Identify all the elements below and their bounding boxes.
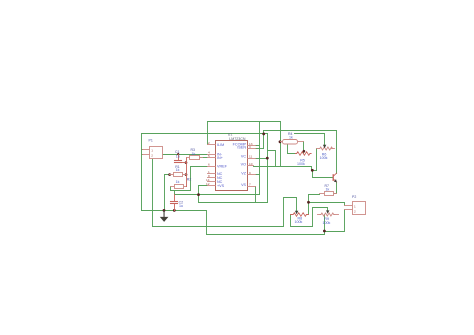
node R7 junction: [307, 201, 310, 204]
pin 14 NC: [208, 181, 216, 183]
connector P1: [143, 150, 150, 155]
pin 10 VO: [248, 165, 254, 167]
wire collector rail: [264, 130, 337, 132]
wire C1 node vertical: [186, 158, 188, 175]
node R1 right junction: [185, 173, 188, 176]
svg-text:100k: 100k: [320, 156, 328, 160]
wire P1 outer vertical: [141, 134, 143, 211]
resistor R1: [170, 174, 187, 176]
wire R7 to P2 pin1: [309, 203, 345, 206]
wire VC stub ext: [256, 158, 268, 160]
svg-text:1: 1: [354, 204, 356, 208]
resistor R7: [320, 193, 337, 195]
capacitor C2: [171, 195, 178, 211]
wire VZ stub ext: [256, 174, 260, 176]
wire P1 pin1 jog: [142, 149, 143, 151]
svg-text:1: 1: [151, 148, 153, 152]
resistor R5: [296, 152, 312, 156]
svg-text:C1: C1: [175, 150, 180, 154]
svg-text:6: 6: [208, 162, 210, 166]
node +VS junction: [197, 193, 200, 196]
pin 2 ILIM: [208, 144, 216, 146]
svg-text:1u: 1u: [179, 204, 183, 208]
potentiometer R8: [291, 213, 309, 217]
node base junction: [311, 169, 314, 172]
wire ISEN vertical: [263, 131, 265, 149]
svg-text:3: 3: [249, 145, 251, 149]
svg-text:2: 2: [151, 153, 153, 157]
svg-text:10: 10: [249, 162, 253, 166]
pin 6 VREF: [208, 166, 216, 168]
wire ILIM vertical: [207, 122, 209, 145]
wire feedback run: [153, 198, 297, 227]
pin 13 FCOMP: [248, 145, 256, 147]
wire FCOMP vertical: [259, 122, 261, 195]
wire R4 bottom to R5: [288, 144, 296, 154]
svg-text:LM723CN: LM723CN: [229, 137, 246, 141]
svg-text:2: 2: [354, 209, 356, 213]
svg-text:1k: 1k: [176, 180, 180, 184]
wire +VS link: [199, 186, 208, 195]
svg-text:1k: 1k: [192, 152, 196, 156]
svg-text:1k: 1k: [326, 187, 330, 191]
wire R9 left vertical: [324, 215, 326, 232]
svg-text:VS: VS: [241, 183, 246, 187]
svg-text:VREF: VREF: [217, 164, 228, 168]
svg-text:1k: 1k: [176, 168, 180, 172]
svg-text:VZ: VZ: [241, 172, 246, 176]
svg-text:7: 7: [249, 183, 251, 187]
svg-text:VC: VC: [241, 155, 246, 159]
pin 7 VS: [248, 186, 256, 188]
pin 3 ISEN: [248, 148, 256, 150]
wire VC vertical: [267, 134, 269, 203]
svg-text:5: 5: [208, 154, 210, 158]
node R4 pin junction: [279, 140, 282, 143]
wire bottom to P2 pin2: [325, 210, 345, 232]
svg-text:2: 2: [208, 141, 210, 145]
svg-text:11: 11: [249, 154, 252, 158]
svg-text:9: 9: [249, 171, 251, 175]
wire VC jog: [268, 151, 276, 167]
potentiometer R6: [319, 147, 333, 150]
svg-text:ILIM: ILIM: [217, 143, 224, 147]
svg-text:1k: 1k: [289, 136, 293, 140]
svg-text:100k: 100k: [297, 162, 305, 166]
node C1-R3 junction: [185, 161, 188, 164]
wire R6 left down: [316, 149, 318, 171]
wire W3 to R6 wiper: [295, 134, 325, 145]
wire FCOMP stub ext: [256, 145, 260, 147]
ground: [160, 210, 169, 222]
wire R6 left to node: [313, 170, 317, 172]
pin 11 VC: [248, 158, 256, 160]
wire P1 to IN-: [163, 154, 208, 156]
wire R7 left link: [309, 195, 320, 203]
wire W1 top rail: [208, 121, 281, 123]
wire R8 wiper loop: [291, 208, 328, 227]
node ISEN junction: [262, 133, 265, 136]
wire ground rail: [142, 211, 325, 235]
pin 5 IN+: [208, 157, 216, 159]
wire ISEN stub ext: [256, 148, 264, 150]
transistor Q1: [332, 175, 334, 181]
svg-text:12: 12: [206, 182, 210, 186]
pin 4 IN-: [208, 154, 216, 156]
wire R2 right vertical: [186, 175, 188, 187]
pin 9 VZ: [248, 174, 256, 176]
resistor R4: [281, 141, 304, 143]
node VC junction: [266, 157, 269, 160]
wire VO run: [254, 167, 312, 171]
node C2 junction: [173, 209, 176, 212]
svg-text:VO: VO: [241, 163, 246, 167]
node R1 left junction: [168, 173, 171, 176]
wire P1 south vertical: [152, 159, 154, 227]
svg-text:1u: 1u: [176, 154, 180, 158]
svg-text:R2: R2: [187, 177, 192, 181]
wire under-IC run A: [175, 194, 260, 196]
svg-text:100k: 100k: [323, 221, 331, 225]
wire R8 right vertical: [308, 203, 310, 215]
wire under-IC run B: [199, 195, 268, 203]
pin 1 NC: [208, 173, 216, 175]
pin 12 +VS: [208, 185, 216, 187]
svg-text:100k: 100k: [295, 220, 303, 224]
capacitor C1: [175, 155, 187, 163]
wire collector vertical: [336, 131, 338, 174]
wire R4 left vertical: [280, 122, 282, 167]
svg-text:+VS: +VS: [217, 184, 225, 188]
wire R4 right down: [303, 142, 305, 154]
node bottom right junction: [323, 230, 326, 233]
connector P2: [345, 206, 353, 210]
node C1 top junction: [177, 153, 179, 155]
wire P1 pin2 jog: [142, 154, 143, 156]
wire P1 pin1 run: [142, 133, 268, 135]
potentiometer R9: [320, 213, 335, 216]
wire base route: [313, 171, 333, 178]
node R5 junction: [303, 150, 306, 153]
wire R3 to IN+: [200, 157, 208, 159]
node ground junction: [163, 209, 166, 212]
svg-text:ISEN: ISEN: [237, 145, 246, 149]
wire C2 top link: [174, 191, 176, 195]
wire VREF route: [171, 167, 208, 191]
svg-text:P1: P1: [149, 138, 153, 142]
resistor R2: [171, 186, 187, 188]
svg-text:IN+: IN+: [217, 156, 223, 160]
pin 8 NC: [208, 177, 216, 179]
op-amp regulator U1 LM723CN: [216, 141, 248, 191]
wire emitter to R7: [334, 183, 337, 194]
resistor R3: [187, 157, 203, 159]
wire R1 left link: [165, 175, 170, 211]
wire VS vertical: [255, 187, 257, 203]
svg-text:P2: P2: [352, 195, 356, 199]
